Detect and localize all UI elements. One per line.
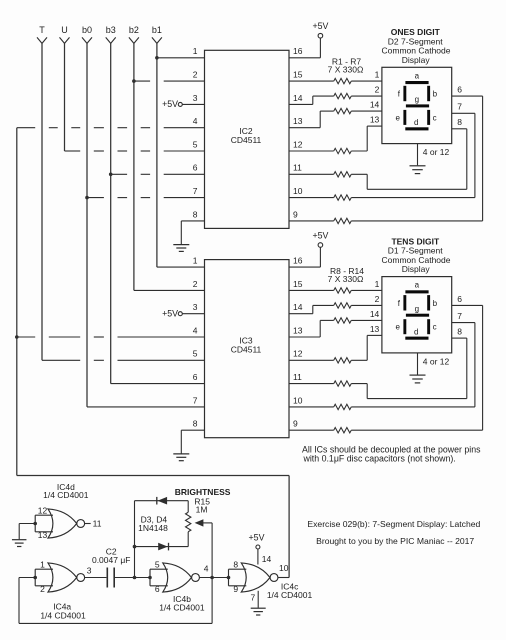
svg-text:16: 16 bbox=[293, 46, 303, 56]
svg-text:8: 8 bbox=[233, 559, 238, 569]
svg-text:14: 14 bbox=[293, 93, 303, 103]
svg-text:Display: Display bbox=[402, 264, 431, 274]
svg-text:6: 6 bbox=[457, 85, 462, 95]
svg-text:6: 6 bbox=[155, 584, 160, 594]
svg-text:9: 9 bbox=[293, 209, 298, 219]
svg-text:4: 4 bbox=[204, 564, 209, 574]
svg-text:g: g bbox=[415, 95, 419, 104]
svg-text:1/4 CD4001: 1/4 CD4001 bbox=[40, 611, 86, 621]
svg-text:Brought to you by the PIC Mani: Brought to you by the PIC Maniac -- 2017 bbox=[316, 536, 474, 546]
svg-text:Exercise 029(b): 7-Segment Dis: Exercise 029(b): 7-Segment Display: Latc… bbox=[307, 519, 480, 529]
svg-text:2: 2 bbox=[193, 70, 198, 80]
svg-text:d: d bbox=[414, 118, 418, 127]
svg-text:13: 13 bbox=[38, 530, 48, 540]
svg-text:9: 9 bbox=[233, 584, 238, 594]
svg-text:+5V: +5V bbox=[249, 533, 265, 543]
svg-text:with 0.1μF disc capacitors (no: with 0.1μF disc capacitors (not shown). bbox=[303, 454, 456, 464]
svg-text:b0: b0 bbox=[82, 25, 92, 35]
svg-text:5: 5 bbox=[193, 139, 198, 149]
svg-text:4 or 12: 4 or 12 bbox=[423, 147, 450, 157]
svg-text:14: 14 bbox=[370, 100, 380, 110]
svg-text:b1: b1 bbox=[152, 25, 162, 35]
svg-text:CD4511: CD4511 bbox=[231, 344, 262, 354]
svg-text:14: 14 bbox=[262, 554, 272, 564]
svg-text:Display: Display bbox=[402, 55, 431, 65]
svg-text:12: 12 bbox=[38, 505, 48, 515]
svg-text:8: 8 bbox=[457, 117, 462, 127]
svg-text:3: 3 bbox=[87, 565, 92, 575]
svg-text:0.0047 μF: 0.0047 μF bbox=[92, 555, 130, 565]
svg-text:1/4 CD4001: 1/4 CD4001 bbox=[267, 590, 313, 600]
svg-text:7: 7 bbox=[457, 102, 462, 112]
svg-text:+5V: +5V bbox=[312, 21, 328, 31]
svg-text:13: 13 bbox=[293, 116, 303, 126]
svg-text:1N4148: 1N4148 bbox=[138, 523, 168, 533]
svg-text:7 X 330Ω: 7 X 330Ω bbox=[328, 274, 364, 284]
svg-text:1M: 1M bbox=[196, 505, 208, 515]
svg-text:15: 15 bbox=[293, 70, 303, 80]
svg-text:1: 1 bbox=[193, 46, 198, 56]
svg-text:13: 13 bbox=[370, 115, 380, 125]
svg-text:2: 2 bbox=[375, 85, 380, 95]
svg-text:a: a bbox=[415, 71, 420, 80]
svg-text:12: 12 bbox=[293, 139, 303, 149]
svg-text:11: 11 bbox=[93, 518, 102, 528]
svg-text:b3: b3 bbox=[106, 25, 116, 35]
svg-text:1: 1 bbox=[40, 559, 45, 569]
svg-text:2: 2 bbox=[40, 584, 45, 594]
svg-text:5: 5 bbox=[155, 559, 160, 569]
svg-text:b2: b2 bbox=[129, 25, 139, 35]
svg-text:+5V: +5V bbox=[162, 99, 178, 109]
svg-text:8: 8 bbox=[193, 209, 198, 219]
svg-text:4: 4 bbox=[193, 116, 198, 126]
svg-text:7: 7 bbox=[193, 186, 198, 196]
svg-text:c: c bbox=[433, 113, 437, 122]
svg-text:6: 6 bbox=[193, 163, 198, 173]
svg-text:10: 10 bbox=[279, 563, 289, 573]
svg-text:7: 7 bbox=[250, 593, 255, 603]
svg-text:1/4 CD4001: 1/4 CD4001 bbox=[43, 490, 89, 500]
svg-text:10: 10 bbox=[293, 186, 303, 196]
svg-text:1: 1 bbox=[375, 70, 380, 80]
svg-text:11: 11 bbox=[293, 163, 302, 173]
svg-text:T: T bbox=[39, 25, 45, 35]
svg-text:3: 3 bbox=[193, 93, 198, 103]
svg-text:b: b bbox=[433, 90, 438, 99]
svg-text:7 X 330Ω: 7 X 330Ω bbox=[328, 65, 364, 75]
svg-text:U: U bbox=[61, 25, 68, 35]
svg-text:e: e bbox=[396, 113, 401, 122]
svg-text:1/4 CD4001: 1/4 CD4001 bbox=[159, 602, 205, 612]
svg-text:CD4511: CD4511 bbox=[231, 135, 262, 145]
